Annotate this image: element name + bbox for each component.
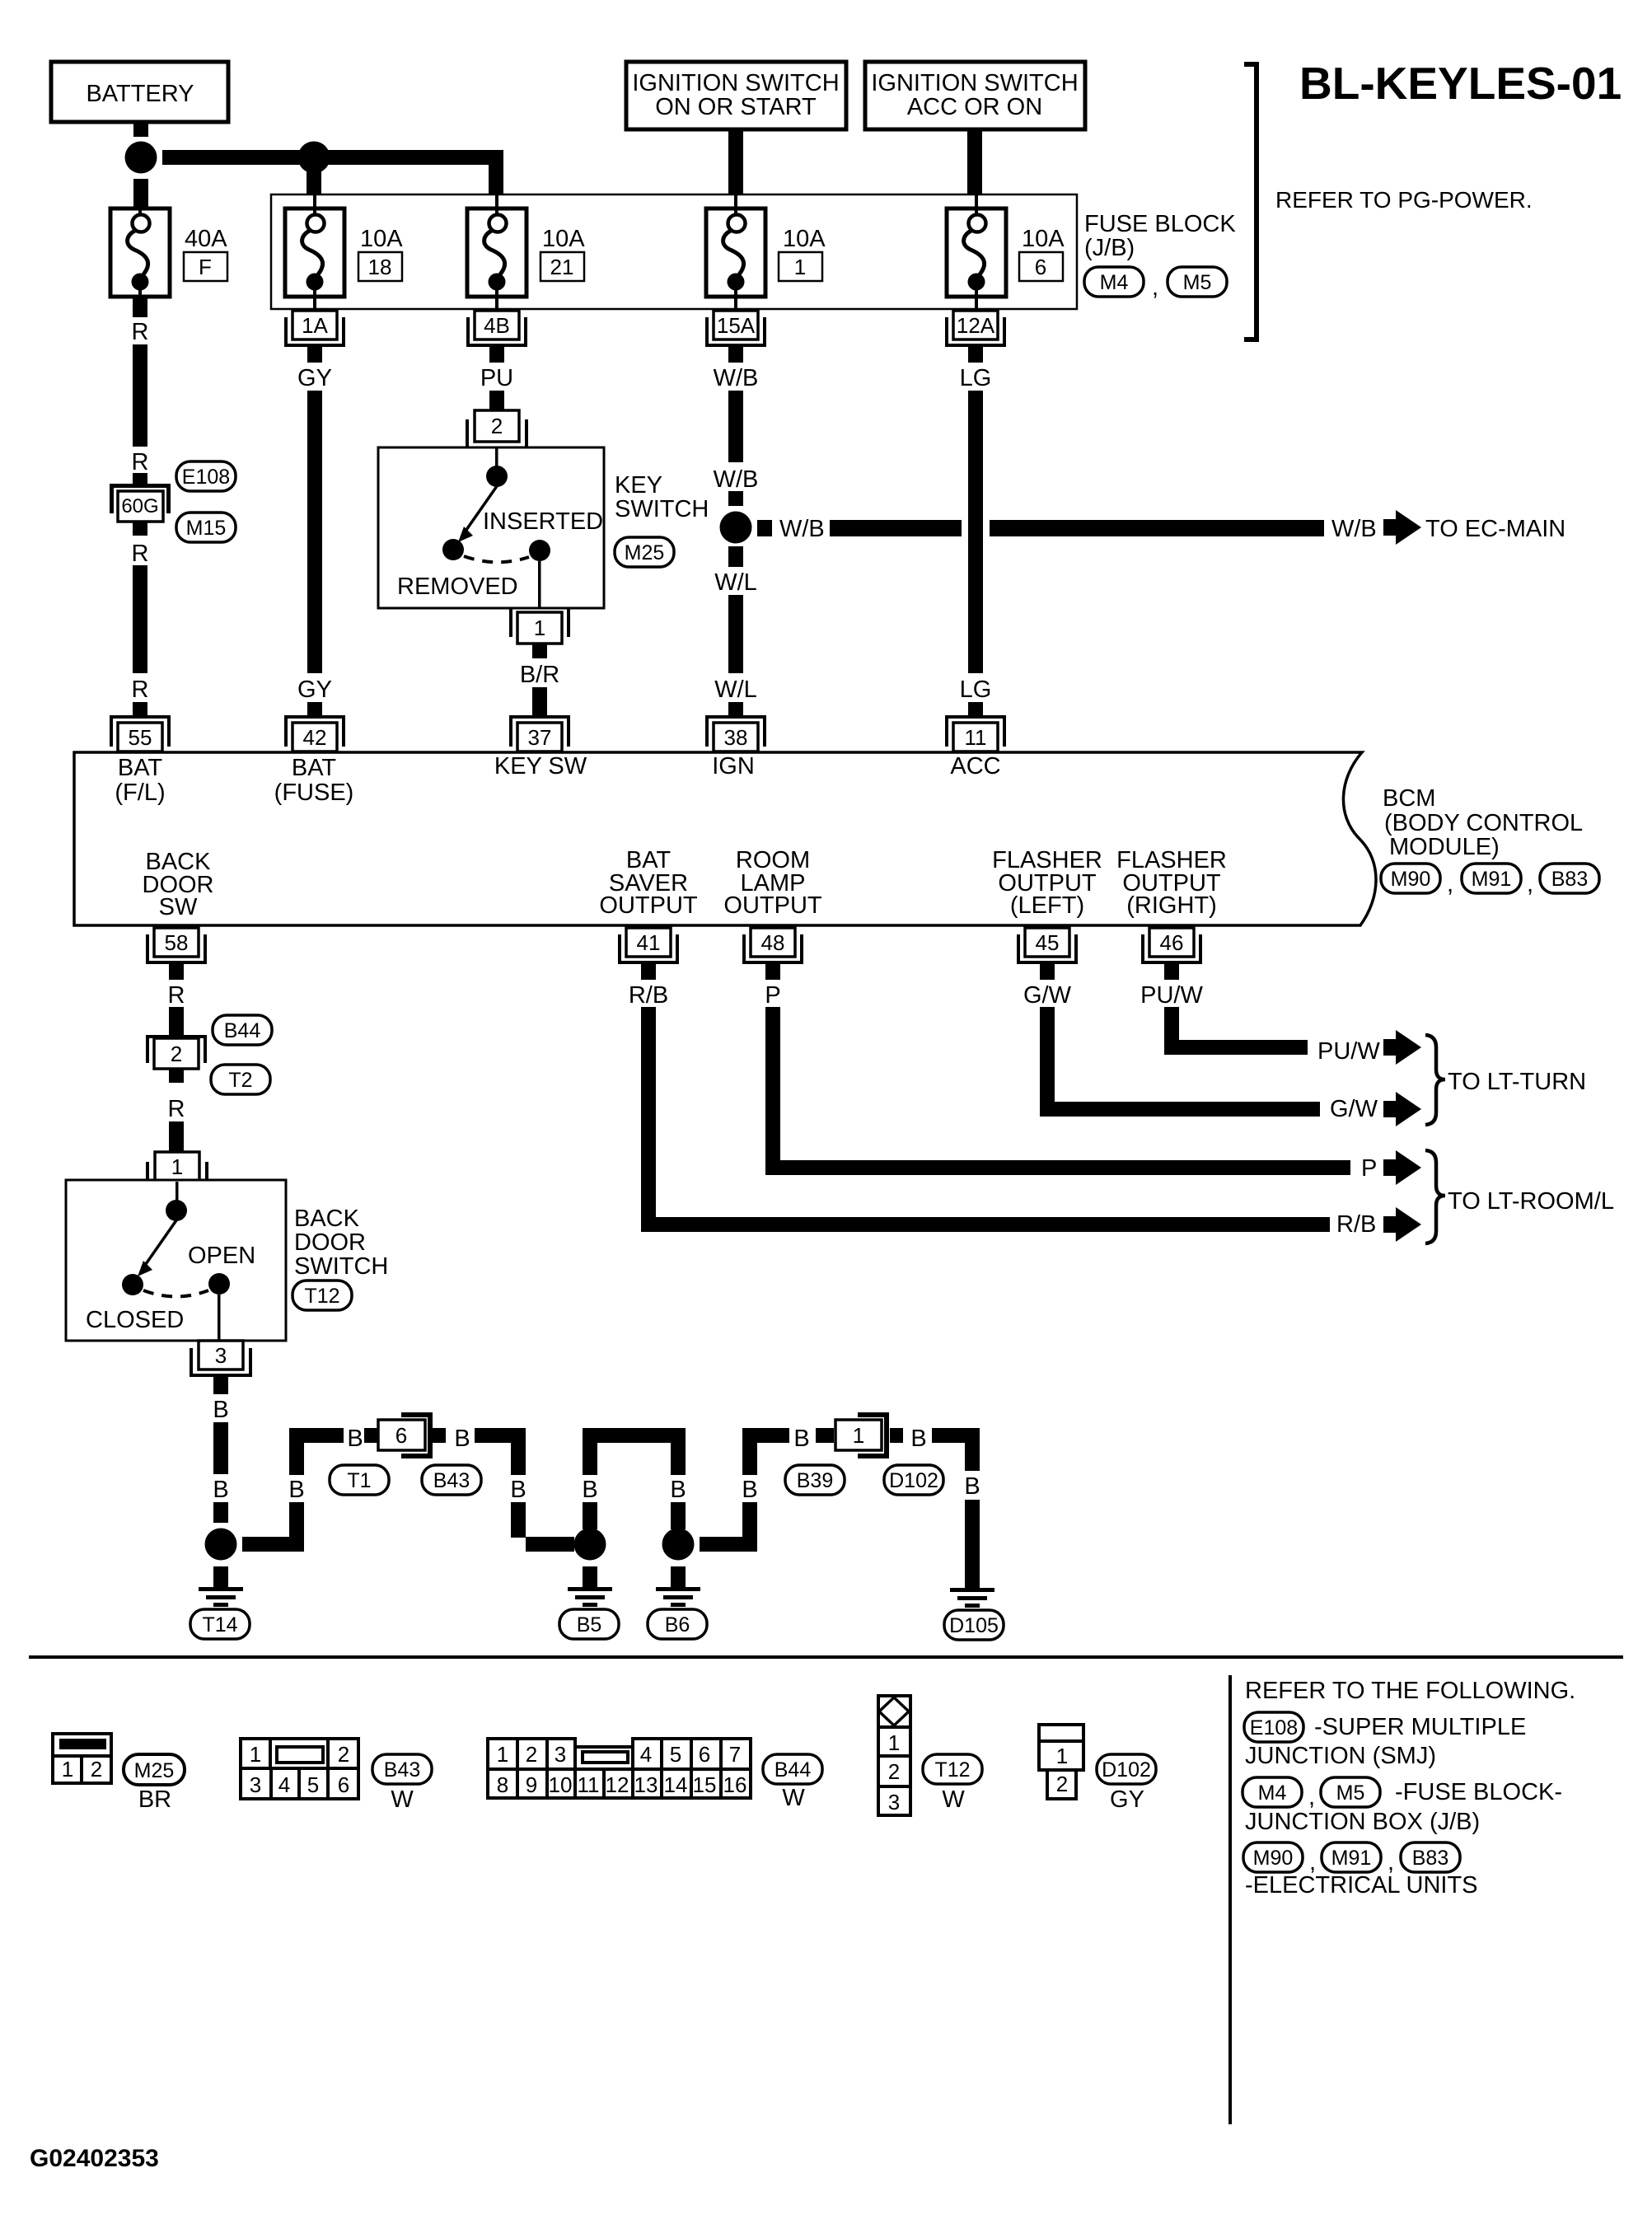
- svg-text:-SUPER MULTIPLE: -SUPER MULTIPLE: [1314, 1714, 1526, 1740]
- wire label B: [454, 1426, 470, 1452]
- svg-text:2: 2: [526, 1742, 537, 1767]
- wire label G/W: [1023, 982, 1072, 1009]
- label CLOSED: [86, 1307, 184, 1333]
- key switch pin1 lead: [538, 561, 541, 608]
- svg-text:GY: GY: [297, 677, 332, 703]
- BCM pin name KEY SW: [494, 753, 587, 780]
- svg-text:JUNCTION (SMJ): JUNCTION (SMJ): [1245, 1743, 1436, 1769]
- comma: [1152, 274, 1158, 301]
- ground symbol B5: [568, 1566, 612, 1607]
- wire label R: [132, 677, 149, 703]
- BCM pin 45 connector: [1017, 928, 1078, 980]
- svg-text:KEY SW: KEY SW: [494, 753, 587, 780]
- svg-text:ON OR START: ON OR START: [655, 94, 817, 120]
- svg-text:1: 1: [853, 1423, 864, 1448]
- wire ignition ACC down to fuse block: [967, 129, 982, 194]
- fuse 1 10A: [706, 194, 765, 311]
- fuse 21 10A: [467, 194, 526, 311]
- svg-text:M25: M25: [625, 541, 665, 564]
- connector M91 oval: [1462, 864, 1521, 893]
- key switch INSERTED contact: [529, 540, 550, 561]
- wire label PU/W: [1140, 982, 1203, 1009]
- svg-text:B: B: [742, 1477, 757, 1503]
- svg-text:F: F: [199, 255, 212, 279]
- svg-text:40A: 40A: [185, 226, 227, 252]
- svg-text:T12: T12: [934, 1758, 970, 1782]
- svg-text:10A: 10A: [360, 226, 403, 252]
- comma: [1308, 1784, 1315, 1810]
- svg-text:6: 6: [338, 1772, 349, 1797]
- wire battery junction down to fuse F: [133, 179, 148, 208]
- wire label B: [510, 1477, 526, 1503]
- svg-text:B: B: [213, 1477, 228, 1503]
- svg-text:6: 6: [395, 1423, 407, 1448]
- wire label W/L: [714, 677, 757, 703]
- wire LG down to BCM pin 11: [968, 391, 983, 673]
- connector E108 oval: [176, 461, 236, 491]
- connector B43 oval: [422, 1465, 481, 1495]
- wire arch B5 to B6: [583, 1428, 686, 1529]
- svg-text:15A: 15A: [717, 313, 756, 338]
- svg-text:M5: M5: [1336, 1782, 1365, 1805]
- svg-text:B39: B39: [797, 1469, 833, 1492]
- svg-text:12A: 12A: [957, 313, 995, 338]
- svg-text:LG: LG: [960, 365, 992, 391]
- BCM pin name BAT (F/L): [115, 755, 165, 806]
- connector T1 oval: [330, 1465, 389, 1495]
- wire label B/R: [520, 662, 559, 688]
- svg-text:W/L: W/L: [714, 677, 757, 703]
- svg-text:M90: M90: [1391, 868, 1431, 891]
- svg-text:BCM: BCM: [1383, 785, 1435, 812]
- svg-text:B43: B43: [433, 1469, 470, 1492]
- svg-text:(FUSE): (FUSE): [274, 780, 354, 806]
- svg-text:B5: B5: [577, 1613, 602, 1636]
- wire R down to back door switch: [169, 1121, 184, 1152]
- wire top run to connector 6: [289, 1428, 344, 1443]
- svg-text:,: ,: [1152, 274, 1158, 301]
- svg-text:B: B: [793, 1426, 809, 1452]
- fuse F id box: [184, 252, 227, 281]
- svg-text:1: 1: [250, 1742, 261, 1767]
- svg-text:TO LT-TURN: TO LT-TURN: [1448, 1069, 1586, 1095]
- wire G/W down and right to LT-TURN: [1040, 1007, 1320, 1117]
- BCM pin name IGN: [712, 753, 755, 780]
- svg-text:BR: BR: [138, 1786, 171, 1813]
- svg-text:M25: M25: [134, 1759, 175, 1782]
- svg-text:R: R: [168, 1096, 185, 1122]
- wire label W/B: [1331, 516, 1377, 542]
- connector pin 4B: [466, 311, 527, 363]
- back door switch common contact: [166, 1200, 187, 1221]
- wire label B: [213, 1397, 228, 1423]
- wire label W/B: [714, 466, 759, 493]
- svg-text:BACK: BACK: [294, 1206, 360, 1232]
- BCM pin name ROOM LAMP OUTPUT: [723, 847, 822, 919]
- wire label B: [742, 1477, 757, 1503]
- svg-text:6: 6: [699, 1742, 710, 1767]
- label W: [942, 1786, 965, 1813]
- connector M15 oval: [176, 513, 236, 542]
- BCM pin 38 connector: [705, 702, 766, 751]
- wire B/R to BCM pin 37: [532, 687, 547, 702]
- svg-text:3: 3: [215, 1343, 227, 1368]
- svg-text:B: B: [213, 1397, 228, 1423]
- connector M90 oval: [1243, 1842, 1303, 1872]
- reference bracket: [1244, 64, 1257, 339]
- svg-text:38: 38: [724, 725, 748, 750]
- wire P down and right to LT-ROOM/L: [765, 1007, 1350, 1175]
- svg-text:1: 1: [497, 1742, 508, 1767]
- label INSERTED: [483, 508, 603, 535]
- svg-text:DOOR: DOOR: [294, 1229, 366, 1256]
- label W: [391, 1786, 414, 1813]
- wire GY down to BCM pin 42: [307, 391, 322, 673]
- wire W/B down: [728, 391, 743, 462]
- svg-text:BATTERY: BATTERY: [86, 81, 194, 107]
- svg-text:T14: T14: [202, 1613, 237, 1636]
- wire W/B horizontal to EC-MAIN (gap at LG crossing): [830, 520, 1324, 536]
- fuse block label: [1084, 211, 1236, 261]
- junction node B5 ground: [574, 1529, 606, 1561]
- BCM pin 48 connector: [742, 928, 803, 980]
- back door switch actuator arrow: [138, 1220, 176, 1276]
- connector T14 oval: [190, 1609, 250, 1639]
- brace TO LT-TURN: [1425, 1035, 1445, 1125]
- svg-text:W/B: W/B: [714, 466, 759, 493]
- svg-text:ACC: ACC: [950, 753, 1000, 780]
- svg-text:B44: B44: [224, 1019, 261, 1042]
- wire R stub below T2: [169, 1069, 184, 1083]
- label GY: [1110, 1786, 1144, 1813]
- connector B44 oval: [213, 1015, 272, 1045]
- svg-text:M4: M4: [1258, 1782, 1287, 1805]
- connector M4 oval: [1084, 267, 1144, 297]
- svg-text:R: R: [168, 982, 185, 1009]
- wire label B: [964, 1473, 980, 1500]
- wire label R: [168, 1096, 185, 1122]
- svg-text:3: 3: [555, 1742, 566, 1767]
- svg-text:B83: B83: [1412, 1847, 1448, 1870]
- note REFER TO THE FOLLOWING.: [1245, 1678, 1575, 1704]
- junction node B6 ground: [662, 1529, 695, 1561]
- svg-text:6: 6: [1035, 255, 1046, 279]
- arrow P: [1383, 1150, 1421, 1185]
- connector B43 oval: [372, 1754, 432, 1784]
- wire label PU/W: [1317, 1038, 1380, 1065]
- BCM pin name BAT SAVER OUTPUT: [599, 847, 698, 919]
- svg-text:10A: 10A: [1022, 226, 1065, 252]
- svg-text:T12: T12: [304, 1285, 339, 1308]
- svg-text:BAT: BAT: [292, 755, 337, 781]
- connector pin 1 key switch: [509, 609, 570, 644]
- key switch REMOVED contact: [442, 539, 464, 560]
- wire battery to junction: [133, 122, 148, 137]
- svg-text:D105: D105: [949, 1614, 999, 1637]
- wire label PU: [480, 365, 513, 391]
- label BCM (BODY CONTROL MODULE): [1383, 785, 1583, 860]
- BCM pin 46 connector: [1141, 928, 1202, 980]
- junction node W/B: [720, 512, 752, 544]
- wire main bus horizontal: [162, 150, 503, 165]
- connector T12 oval: [292, 1281, 352, 1310]
- svg-text:B: B: [454, 1426, 470, 1452]
- svg-text:W/L: W/L: [714, 569, 757, 596]
- svg-text:16: 16: [723, 1772, 747, 1797]
- svg-text:1: 1: [1056, 1744, 1068, 1768]
- svg-text:R: R: [132, 677, 149, 703]
- wire W/L down to BCM pin 38: [728, 546, 743, 673]
- connector B5 oval: [559, 1609, 619, 1639]
- svg-text:5: 5: [307, 1772, 319, 1797]
- connector B39 oval: [785, 1465, 845, 1495]
- label REMOVED: [397, 574, 518, 600]
- wire label W/B: [714, 365, 759, 391]
- svg-text:R/B: R/B: [629, 982, 668, 1009]
- BCM pin name ACC: [950, 753, 1000, 780]
- svg-text:TO EC-MAIN: TO EC-MAIN: [1425, 516, 1565, 542]
- connector M5 oval: [1321, 1777, 1380, 1807]
- connector B6 oval: [648, 1609, 707, 1639]
- svg-text:(BODY CONTROL: (BODY CONTROL: [1384, 810, 1583, 836]
- wire label B: [288, 1477, 304, 1503]
- svg-text:(RIGHT): (RIGHT): [1126, 892, 1217, 919]
- svg-text:(J/B): (J/B): [1084, 235, 1135, 261]
- wire W/B stub right of junction: [757, 520, 772, 536]
- svg-text:-FUSE BLOCK-: -FUSE BLOCK-: [1395, 1779, 1562, 1805]
- svg-text:10: 10: [549, 1772, 573, 1797]
- svg-text:M4: M4: [1100, 271, 1129, 294]
- svg-text:OUTPUT: OUTPUT: [599, 892, 698, 919]
- wire label W/L: [714, 569, 757, 596]
- wire riser up: [289, 1443, 304, 1552]
- junction node battery bus left: [125, 142, 157, 174]
- comma: [1388, 1849, 1394, 1875]
- fuse 18 id box: [358, 252, 402, 281]
- svg-text:5: 5: [670, 1742, 681, 1767]
- svg-text:PU/W: PU/W: [1317, 1038, 1380, 1065]
- wire R down to T2: [169, 1007, 184, 1035]
- svg-text:B43: B43: [384, 1758, 420, 1782]
- connector pin 6 inline T1/B43: [378, 1412, 433, 1458]
- svg-text:10A: 10A: [783, 226, 826, 252]
- svg-text:,: ,: [1447, 871, 1453, 897]
- wire R down: [133, 344, 147, 447]
- label TO LT-ROOM/L: [1448, 1188, 1614, 1215]
- connector M91 oval: [1322, 1842, 1381, 1872]
- connector face D102: [1039, 1725, 1083, 1799]
- connector M5 oval: [1168, 267, 1227, 297]
- wire PU/W down and right to LT-TURN: [1164, 1007, 1308, 1055]
- svg-text:1: 1: [534, 616, 545, 640]
- wire label W/B: [779, 516, 825, 542]
- label W: [782, 1785, 805, 1811]
- svg-text:W: W: [942, 1786, 965, 1813]
- svg-text:2: 2: [91, 1757, 102, 1782]
- svg-text:42: 42: [303, 725, 327, 750]
- svg-text:2: 2: [1056, 1772, 1068, 1796]
- svg-text:,: ,: [1308, 1784, 1315, 1810]
- wire stub out of connector 1: [890, 1428, 903, 1443]
- wire B6 to right riser: [700, 1537, 757, 1552]
- wire R/B down and right to LT-ROOM/L: [641, 1007, 1330, 1232]
- key switch actuator arrow: [458, 486, 497, 542]
- svg-text:2: 2: [171, 1042, 182, 1066]
- BCM pin 58 connector: [146, 928, 207, 980]
- wire label R: [168, 982, 185, 1009]
- svg-text:R: R: [132, 319, 149, 345]
- svg-text:15: 15: [693, 1772, 717, 1797]
- label TO LT-TURN: [1448, 1069, 1586, 1095]
- svg-text:B: B: [288, 1477, 304, 1503]
- svg-text:REFER TO PG-POWER.: REFER TO PG-POWER.: [1275, 187, 1533, 213]
- wire riser up to connector 1 run: [742, 1428, 789, 1552]
- svg-text:12: 12: [606, 1772, 629, 1797]
- svg-text:BAT: BAT: [118, 755, 163, 781]
- wire label P: [765, 982, 780, 1009]
- svg-text:E108: E108: [182, 466, 230, 489]
- label OPEN: [188, 1243, 255, 1269]
- key switch common contact: [486, 466, 508, 487]
- ground symbol T14: [199, 1566, 243, 1607]
- back door switch throw arc dashed: [143, 1290, 208, 1297]
- wire label B: [910, 1426, 926, 1452]
- wire label R: [132, 541, 149, 567]
- svg-text:7: 7: [729, 1742, 741, 1767]
- svg-text:1: 1: [888, 1730, 900, 1755]
- fuse 21 rating 10A: [542, 226, 585, 252]
- fuse 21 id box: [541, 252, 584, 281]
- svg-text:M5: M5: [1183, 271, 1212, 294]
- svg-text:-ELECTRICAL UNITS: -ELECTRICAL UNITS: [1245, 1872, 1478, 1899]
- svg-text:B: B: [510, 1477, 526, 1503]
- ground symbol D105: [950, 1588, 994, 1608]
- svg-text:B: B: [964, 1473, 980, 1500]
- comma: [1309, 1849, 1316, 1875]
- svg-text:B: B: [347, 1426, 363, 1452]
- svg-text:2: 2: [338, 1742, 349, 1767]
- svg-text:W/B: W/B: [1331, 516, 1377, 542]
- svg-text:B: B: [582, 1477, 597, 1503]
- separator line: [29, 1655, 1623, 1659]
- connector face T12: [878, 1696, 910, 1815]
- battery B+ source box: [51, 62, 228, 122]
- svg-text:BL-KEYLES-01: BL-KEYLES-01: [1299, 58, 1622, 109]
- svg-text:JUNCTION BOX (J/B): JUNCTION BOX (J/B): [1245, 1809, 1480, 1835]
- figure number G02402353: [30, 2145, 159, 2172]
- svg-text:B/R: B/R: [520, 662, 559, 688]
- connector T12 oval: [923, 1754, 982, 1784]
- svg-text:21: 21: [550, 255, 574, 279]
- svg-text:CLOSED: CLOSED: [86, 1307, 184, 1333]
- svg-text:1: 1: [62, 1757, 73, 1782]
- svg-text:18: 18: [368, 255, 392, 279]
- wire bus corner drop to fuse 21: [489, 150, 503, 194]
- junction node T14 ground: [205, 1529, 237, 1561]
- connector pin 1A: [284, 311, 345, 363]
- connector B83 oval: [1540, 864, 1599, 893]
- arrow PU/W: [1383, 1030, 1421, 1065]
- svg-text:G/W: G/W: [1023, 982, 1072, 1009]
- svg-text:3: 3: [250, 1772, 261, 1797]
- wire R below fuse F: [133, 297, 147, 317]
- BCM pin 11 connector: [945, 702, 1006, 751]
- ignition switch ACC/ON source box: [865, 62, 1085, 129]
- wire run and drop to D105: [932, 1428, 980, 1588]
- svg-text:M15: M15: [186, 517, 227, 540]
- connector B83 oval: [1401, 1842, 1460, 1872]
- label BR: [138, 1786, 171, 1813]
- BCM pin 37 connector: [509, 702, 570, 751]
- wire ignition ON/START down to fuse block: [728, 129, 743, 194]
- label BACK DOOR SWITCH: [294, 1206, 388, 1280]
- svg-text:W: W: [782, 1785, 805, 1811]
- svg-text:2: 2: [491, 414, 503, 438]
- svg-text:M91: M91: [1472, 868, 1512, 891]
- svg-text:14: 14: [664, 1772, 688, 1797]
- arrow G/W: [1383, 1092, 1421, 1126]
- svg-text:TO LT-ROOM/L: TO LT-ROOM/L: [1448, 1188, 1614, 1215]
- BCM pin 41 connector: [618, 928, 679, 980]
- wire label B: [670, 1477, 686, 1503]
- svg-text:LG: LG: [960, 677, 992, 703]
- svg-text:GY: GY: [297, 365, 332, 391]
- wire W/B into junction: [728, 491, 743, 506]
- wire label R/B: [629, 982, 668, 1009]
- wire label B: [582, 1477, 597, 1503]
- svg-text:13: 13: [634, 1772, 658, 1797]
- wire label R: [132, 319, 149, 345]
- svg-text:M90: M90: [1253, 1847, 1294, 1870]
- svg-text:B: B: [670, 1477, 686, 1503]
- svg-text:IGN: IGN: [712, 753, 755, 780]
- svg-text:T2: T2: [228, 1069, 252, 1092]
- wire R down to BCM pin 55: [133, 565, 147, 673]
- BCM pin 55 connector: [110, 702, 171, 751]
- svg-text:W/B: W/B: [779, 516, 825, 542]
- svg-text:PU: PU: [480, 365, 513, 391]
- wire stub into connector 1: [816, 1428, 834, 1443]
- wire label R: [132, 449, 149, 475]
- key switch box: [378, 447, 604, 608]
- svg-text:W: W: [391, 1786, 414, 1813]
- back door switch box: [66, 1180, 286, 1341]
- svg-text:58: 58: [165, 930, 189, 955]
- connector pin 2 inline T2: [146, 1035, 207, 1069]
- connector M4 oval: [1243, 1777, 1302, 1807]
- svg-text:(LEFT): (LEFT): [1010, 892, 1084, 919]
- note REFER TO PG-POWER.: [1275, 187, 1533, 213]
- wire label LG: [960, 677, 992, 703]
- svg-text:46: 46: [1160, 930, 1184, 955]
- svg-text:,: ,: [1527, 871, 1533, 897]
- svg-text:SW: SW: [159, 894, 198, 920]
- svg-text:60G: 60G: [121, 495, 158, 517]
- connector T2 oval: [211, 1065, 270, 1094]
- note FUSE BLOCK JUNCTION BOX: [1245, 1779, 1562, 1835]
- wire B into ground junction: [213, 1502, 228, 1523]
- svg-text:R: R: [132, 541, 149, 567]
- svg-text:3: 3: [888, 1790, 900, 1814]
- note ELECTRICAL UNITS: [1245, 1872, 1478, 1899]
- connector pin 1 inline B39/D102: [835, 1412, 889, 1458]
- svg-text:KEY: KEY: [615, 472, 662, 499]
- svg-text:55: 55: [129, 725, 152, 750]
- svg-text:E108: E108: [1250, 1716, 1298, 1739]
- BCM pin name BACK DOOR SW: [143, 849, 214, 920]
- wire label GY: [297, 677, 332, 703]
- brace TO LT-ROOM/L: [1425, 1150, 1445, 1243]
